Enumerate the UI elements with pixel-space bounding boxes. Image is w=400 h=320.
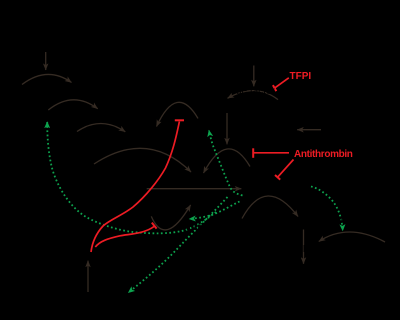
svg-text:Protein S: Protein S <box>2 222 43 233</box>
svg-text:X: X <box>326 125 333 136</box>
svg-text:Active protein C: Active protein C <box>40 250 111 261</box>
svg-text:Cross-linked fibrin clot: Cross-linked fibrin clot <box>250 270 349 281</box>
svg-text:Tissue factor (extrinsic) path: Tissue factor (extrinsic) pathway <box>206 32 349 43</box>
svg-text:Prothrombin (II): Prothrombin (II) <box>66 184 135 195</box>
svg-text:XII: XII <box>8 80 20 91</box>
svg-text:VIIIa: VIIIa <box>130 112 151 123</box>
svg-text:Xa: Xa <box>220 152 233 163</box>
svg-text:Tissue factor: Tissue factor <box>218 86 276 97</box>
svg-text:VIIa: VIIa <box>230 102 248 113</box>
svg-text:Protein C + Thrombomodulin: Protein C + Thrombomodulin <box>20 296 148 307</box>
svg-text:XI: XI <box>34 105 43 116</box>
svg-text:IX: IX <box>62 128 72 139</box>
svg-text:TFPI: TFPI <box>290 71 312 82</box>
svg-text:Contact activation (intrinsic): Contact activation (intrinsic) pathway <box>4 32 167 43</box>
svg-text:XIIa: XIIa <box>76 80 94 91</box>
svg-text:VIII: VIII <box>202 114 217 125</box>
svg-text:Va: Va <box>194 195 206 206</box>
svg-text:XIIIa: XIIIa <box>296 244 317 255</box>
svg-text:Thrombin (IIa): Thrombin (IIa) <box>245 184 308 195</box>
svg-text:V: V <box>126 212 133 223</box>
svg-text:Fibrinogen (I): Fibrinogen (I) <box>180 222 239 233</box>
svg-text:Fibrin (Ia): Fibrin (Ia) <box>303 214 346 225</box>
svg-text:Antithrombin: Antithrombin <box>294 149 353 160</box>
svg-text:XIa: XIa <box>102 104 117 115</box>
svg-text:X: X <box>82 160 89 171</box>
svg-text:VII: VII <box>282 102 294 113</box>
svg-text:XIII: XIII <box>366 241 381 252</box>
svg-text:IXa: IXa <box>130 128 145 139</box>
